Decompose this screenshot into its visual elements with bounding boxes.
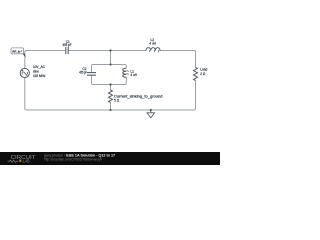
node A junction dot (top rail / tank feed) [109, 49, 111, 51]
wire: tank feed drop from node A [110, 51, 112, 65]
R1 label [114, 94, 163, 102]
svg-text:http://circuitlab.com/c/7fe65/: http://circuitlab.com/c/7fe65/7fab5wvanp… [44, 158, 102, 162]
inductor L2 [146, 48, 160, 53]
junction dot tank bottom [109, 83, 111, 85]
svg-text:118 MHz: 118 MHz [33, 74, 46, 78]
wire: left rail below source to bottom rail [25, 78, 196, 110]
wire: tank loop left/top [92, 65, 127, 73]
svg-text:4 uH: 4 uH [130, 73, 137, 77]
svg-text:LAB: LAB [23, 158, 30, 163]
svg-text:5 Ω: 5 Ω [114, 99, 120, 103]
capacitor C2 [87, 73, 96, 76]
C2 label [79, 67, 87, 75]
capacitor C1 [66, 47, 68, 54]
source V1 value label [33, 65, 46, 78]
wire: tank loop bottom [92, 75, 127, 84]
resistor R1 Current_sinking_to_ground [109, 90, 113, 102]
junction dot bottom rail / resistor [109, 109, 111, 111]
flag RF_in [11, 48, 26, 58]
C1 label [63, 40, 72, 47]
svg-text:455 pF: 455 pF [79, 71, 87, 75]
svg-text:4 uH: 4 uH [149, 42, 156, 46]
junction dot tank top [109, 63, 111, 65]
svg-text:10V_AC: 10V_AC [33, 65, 46, 69]
wire: resistor drop to ground rail [110, 85, 112, 111]
svg-text:sine: sine [33, 70, 39, 74]
source V1 10V_AC [20, 68, 29, 77]
footer bar [0, 152, 220, 165]
ground [147, 110, 155, 118]
wire: main top rail from node A to load corner [25, 51, 196, 69]
resistor Load [194, 67, 198, 80]
Load label [200, 67, 207, 75]
svg-text:455 pF: 455 pF [63, 43, 72, 47]
L1 label [130, 70, 137, 78]
inductor L1 [123, 68, 129, 77]
svg-text:2 Ω: 2 Ω [200, 72, 206, 76]
svg-text:Load: Load [200, 67, 207, 71]
svg-text:Current_sinking_to_ground: Current_sinking_to_ground [114, 94, 163, 98]
CircuitLab logo [8, 155, 36, 163]
svg-text:RF_in: RF_in [12, 50, 20, 54]
junction dot bottom rail / ground [150, 109, 152, 111]
L2 label [149, 38, 156, 45]
